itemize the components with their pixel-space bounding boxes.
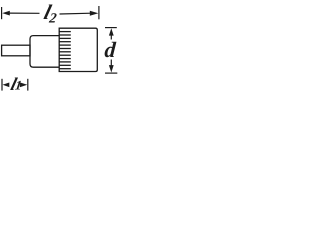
dimension l2 line right segment	[60, 12, 92, 15]
dimension d extension tick bottom	[105, 72, 117, 74]
svg-text:1: 1	[14, 78, 23, 93]
dimension l2 right arrow	[90, 11, 99, 16]
body large knurled section	[59, 28, 97, 71]
dimension d lower stem	[110, 60, 112, 66]
dimension l1 left arrow	[3, 83, 10, 88]
dimension l2 extension tick right	[98, 6, 100, 19]
dimension l1 right arrow	[20, 82, 28, 87]
dimension d up arrow	[109, 28, 114, 35]
dimension l1 extension tick left	[1, 79, 3, 91]
dimension l2 left arrow	[2, 11, 10, 16]
dimension l2 extension tick left	[1, 7, 3, 19]
body small step section	[30, 36, 59, 68]
knurl hatch lines	[59, 32, 71, 69]
svg-text:d: d	[104, 37, 118, 62]
shank (bit)	[2, 45, 30, 56]
dimension l1 extension tick right	[27, 79, 29, 91]
dimension d down arrow	[109, 65, 114, 72]
dimension l2 line left segment	[9, 12, 40, 14]
dimension d upper stem	[110, 35, 112, 40]
dimension d extension tick top	[105, 27, 117, 29]
